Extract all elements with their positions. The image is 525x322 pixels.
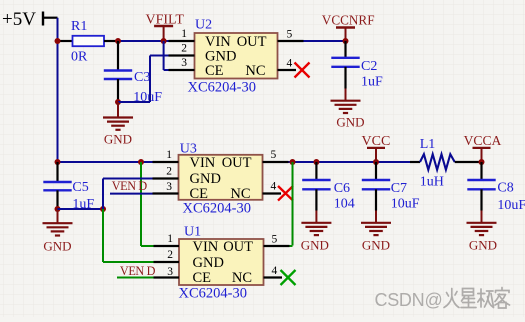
capacitor C3 <box>104 41 163 105</box>
U3 pin 2 GND <box>153 166 179 179</box>
capacitor C7 <box>362 162 420 212</box>
svg-text:U3: U3 <box>180 142 197 157</box>
wire C5 bottom to U3 GND node <box>58 208 104 210</box>
svg-text:GND: GND <box>469 238 497 253</box>
junction VCC node <box>373 159 379 165</box>
wire green U1 GND feed <box>103 209 154 262</box>
svg-text:GND: GND <box>205 48 236 64</box>
svg-text:GND: GND <box>362 238 390 253</box>
watermark CSDN <box>375 290 443 310</box>
U1 pin 2 GND <box>154 249 180 262</box>
svg-text:VFILT: VFILT <box>146 13 185 28</box>
svg-text:CE: CE <box>205 63 224 79</box>
svg-text:GND: GND <box>190 171 221 187</box>
svg-text:3: 3 <box>166 181 172 193</box>
svg-text:OUT: OUT <box>237 34 267 50</box>
junction VFILT node <box>161 38 167 44</box>
svg-text:GND: GND <box>43 239 71 254</box>
watermark chinese characters <box>444 288 510 309</box>
op-amp regulator U3 XC6204-30 <box>179 142 263 217</box>
U2 pin 4 NC <box>278 58 297 71</box>
svg-text:C2: C2 <box>361 59 377 74</box>
junction C3/GND node <box>115 99 121 105</box>
ground GND under C8 <box>467 211 498 253</box>
svg-text:4: 4 <box>287 58 293 70</box>
power port +5V <box>2 9 58 30</box>
wire R1 to C3 node <box>104 40 118 42</box>
ground GND under C5 <box>43 209 73 254</box>
ground GND under C7 <box>361 211 391 253</box>
U2 pin 5 OUT <box>278 29 304 42</box>
junction VCCA node <box>479 159 485 165</box>
U2 pin 2 GND <box>169 43 195 56</box>
junction C5 top node <box>55 159 61 165</box>
junction C5 bottom node <box>55 206 61 212</box>
svg-text:2: 2 <box>181 43 187 55</box>
svg-text:C5: C5 <box>72 180 88 195</box>
svg-text:NC: NC <box>245 63 265 79</box>
svg-text:1: 1 <box>166 149 172 161</box>
svg-text:1: 1 <box>167 233 173 245</box>
svg-text:5: 5 <box>272 234 278 246</box>
svg-text:GND: GND <box>104 132 132 147</box>
junction +5V/R1 node <box>55 38 61 44</box>
svg-text:CSDN: CSDN <box>375 290 425 310</box>
svg-text:4: 4 <box>271 180 277 192</box>
junction VCCNRF node <box>343 38 349 44</box>
svg-text:10uF: 10uF <box>391 197 420 212</box>
U1 pin 5 OUT <box>264 234 290 247</box>
svg-text:VIN: VIN <box>190 155 216 171</box>
wire C3 node to VFILT node <box>118 40 169 42</box>
svg-text:GND: GND <box>193 255 224 271</box>
svg-text:OUT: OUT <box>222 155 252 171</box>
junction C6 node <box>313 159 319 165</box>
power port VFILT <box>146 13 185 42</box>
svg-text:VCC: VCC <box>362 134 391 149</box>
svg-text:2: 2 <box>167 249 173 261</box>
svg-text:104: 104 <box>334 197 355 212</box>
svg-text:+5V: +5V <box>2 9 36 30</box>
svg-text:VCCA: VCCA <box>464 133 502 148</box>
wire VFILT node to U2 CE <box>164 41 169 70</box>
capacitor C6 <box>302 162 355 212</box>
no-ERC marker on U1 pin 4 <box>281 270 296 285</box>
svg-text:0R: 0R <box>71 50 88 65</box>
net label VEN_D at U3 CE <box>110 179 153 194</box>
svg-text:VIN: VIN <box>193 239 219 255</box>
ground GND under C3 <box>103 102 133 147</box>
svg-text:5: 5 <box>271 149 277 161</box>
svg-text:2: 2 <box>166 166 172 178</box>
net label VEN_D at U1 CE <box>117 264 156 278</box>
svg-text:C8: C8 <box>497 181 513 196</box>
wire green U1 OUT to rail <box>290 162 293 246</box>
op-amp regulator U2 XC6204-30 <box>188 18 278 96</box>
junction U3 GND node <box>100 206 106 212</box>
junction U1 OUT join <box>290 159 296 165</box>
capacitor C2 <box>331 41 383 90</box>
inductor L1 <box>410 137 482 190</box>
svg-text:3: 3 <box>167 266 173 278</box>
svg-text:U1: U1 <box>184 225 201 240</box>
U3 pin 4 NC <box>263 180 282 193</box>
svg-text:C6: C6 <box>334 181 350 196</box>
svg-text:VEN D: VEN D <box>120 264 156 278</box>
wire +5V vertical to lower rail <box>57 18 59 162</box>
wire main +5V rail to U3 VIN <box>58 161 153 163</box>
junction R1/C3 node <box>115 38 121 44</box>
ground GND under C2 <box>331 89 365 130</box>
capacitor C8 <box>467 162 525 213</box>
svg-text:1uH: 1uH <box>420 175 444 190</box>
svg-text:3: 3 <box>181 57 187 69</box>
no-ERC marker on U3 pin 4 <box>278 186 293 201</box>
svg-text:XC6204-30: XC6204-30 <box>183 201 251 217</box>
svg-text:1: 1 <box>181 28 187 40</box>
wire U2 OUT to VCCNRF node <box>304 40 346 42</box>
capacitor C5 <box>43 162 94 212</box>
svg-text:R1: R1 <box>71 19 87 34</box>
svg-text:GND: GND <box>336 115 364 130</box>
junction rail/U1 feed node <box>138 159 144 165</box>
power port VCCA <box>464 133 502 162</box>
svg-text:C7: C7 <box>391 181 407 196</box>
svg-text:L1: L1 <box>420 137 436 152</box>
svg-text:XC6204-30: XC6204-30 <box>179 286 247 302</box>
svg-text:U2: U2 <box>195 18 212 33</box>
U3 pin 5 OUT <box>263 149 289 162</box>
svg-text:XC6204-30: XC6204-30 <box>188 80 256 96</box>
svg-text:C3: C3 <box>134 70 150 85</box>
U3 pin 1 VIN <box>153 149 179 162</box>
wire U3 OUT to output rail <box>289 161 411 163</box>
wire +5V to R1 <box>58 40 73 42</box>
svg-text:CE: CE <box>193 270 212 286</box>
svg-text:@: @ <box>425 290 443 310</box>
no-ERC marker on U2 pin 4 <box>295 63 310 78</box>
ground GND under C6 <box>301 211 332 253</box>
power port VCC <box>362 134 391 162</box>
svg-text:4: 4 <box>272 265 278 277</box>
U2 pin 1 VIN <box>169 28 195 41</box>
U3 pin 3 CE <box>153 181 179 194</box>
U1 pin 1 VIN <box>154 233 180 246</box>
svg-text:10uF: 10uF <box>497 198 525 213</box>
op-amp regulator U1 XC6204-30 <box>179 225 264 302</box>
svg-text:5: 5 <box>287 29 293 41</box>
wire U2 GND to C3 ground node <box>118 56 169 103</box>
svg-text:GND: GND <box>301 238 329 253</box>
wire U3 GND down <box>103 179 153 210</box>
svg-text:NC: NC <box>232 270 252 286</box>
U1 pin 3 CE <box>154 266 180 278</box>
svg-text:VCCNRF: VCCNRF <box>322 13 375 28</box>
svg-text:VEN D: VEN D <box>112 179 148 193</box>
U2 pin 3 CE <box>169 57 195 70</box>
resistor R1 <box>71 19 104 65</box>
svg-text:1uF: 1uF <box>361 75 383 90</box>
power port VCCNRF <box>322 13 375 42</box>
svg-text:OUT: OUT <box>223 239 253 255</box>
U1 pin 4 NC <box>264 265 283 278</box>
wire green U1 VIN feed <box>141 162 154 246</box>
